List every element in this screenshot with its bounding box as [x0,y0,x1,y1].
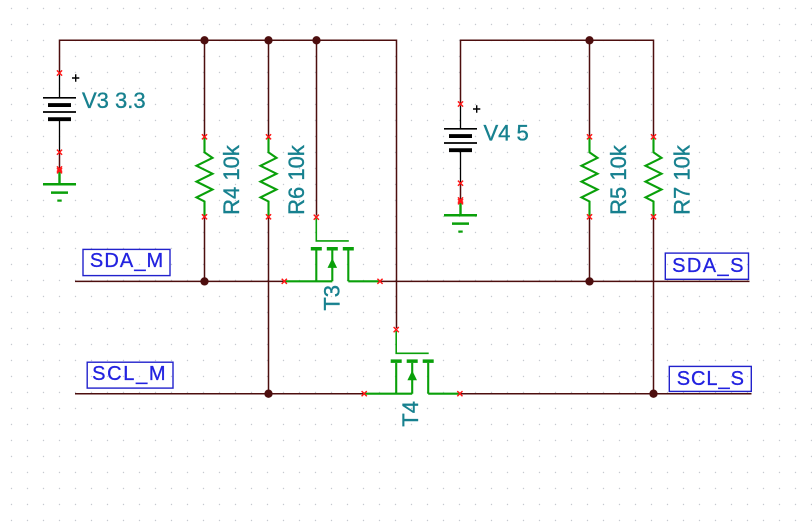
svg-text:T4: T4 [398,401,423,427]
svg-text:SDA_M: SDA_M [90,250,164,272]
svg-text:R5 10k: R5 10k [606,144,631,215]
svg-text:SDA_S: SDA_S [672,255,745,277]
svg-text:V4 5: V4 5 [484,121,529,146]
svg-text:SCL_S: SCL_S [677,368,745,390]
svg-text:SCL_M: SCL_M [92,363,167,385]
svg-text:R4 10k: R4 10k [219,144,244,215]
svg-text:T3: T3 [319,285,344,311]
svg-text:R6 10k: R6 10k [284,144,309,215]
svg-text:R7 10k: R7 10k [669,144,694,215]
svg-text:V3 3.3: V3 3.3 [82,88,146,113]
